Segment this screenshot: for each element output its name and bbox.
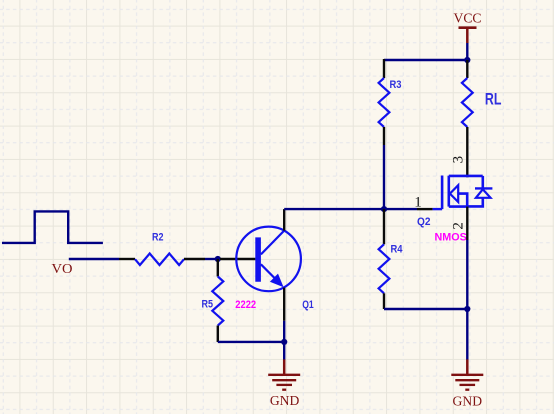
wire R2 to node: [205, 258, 218, 260]
wire R5 to emitter: [218, 341, 284, 343]
ground GND left stem: [283, 359, 286, 374]
resistor RL body: [462, 78, 473, 127]
svg-text:NMOS: NMOS: [435, 232, 467, 244]
resistor RL pin 1: [466, 60, 468, 78]
svg-text:R5: R5: [202, 299, 214, 311]
svg-text:2222: 2222: [235, 299, 256, 311]
svg-text:Q1: Q1: [302, 299, 314, 311]
transistor Q1 base bar: [255, 237, 261, 281]
wire R3 to gate node: [383, 145, 385, 209]
svg-text:VCC: VCC: [454, 12, 482, 27]
ground GND right stem: [466, 359, 469, 374]
svg-text:1: 1: [414, 195, 422, 211]
svg-text:GND: GND: [453, 394, 483, 409]
body diode cathode bar: [475, 187, 492, 189]
transistor Q1 base pin: [220, 258, 255, 260]
transistor Q2 gate pin: [417, 208, 433, 210]
resistor R2 pin 2: [184, 258, 205, 260]
resistor R5 body: [212, 277, 223, 326]
svg-text:R2: R2: [152, 232, 164, 244]
node junction gate/R3/R4: [381, 206, 387, 212]
transistor Q1 collector pin: [283, 209, 285, 231]
transistor Q2 source stub: [449, 205, 467, 208]
body diode branch lower: [467, 198, 483, 207]
body diode branch upper: [481, 176, 484, 189]
wire R4 to source net: [384, 308, 467, 310]
svg-text:GND: GND: [270, 394, 300, 409]
resistor R3 body: [379, 78, 390, 127]
wire emitter to GND: [283, 321, 285, 360]
ground GND right bars: [451, 375, 483, 390]
transistor Q1 circle: [236, 227, 301, 292]
svg-text:2: 2: [451, 222, 467, 230]
body diode triangle: [476, 189, 491, 198]
power port VCC stem: [466, 28, 469, 43]
wire R3 top corner: [384, 59, 467, 61]
pulse waveform VO: [2, 211, 103, 243]
resistor R3 pin 1: [383, 59, 385, 78]
resistor R4 pin 1: [383, 209, 385, 244]
wire VCC to node: [466, 43, 468, 60]
resistor R2 pin 1: [119, 258, 135, 260]
wire VO to R2: [69, 258, 119, 260]
wire source to GND: [466, 240, 468, 360]
resistor R5 pin 2: [217, 326, 219, 343]
node junction source/R4: [464, 306, 470, 312]
transistor Q1 emitter line: [261, 264, 277, 280]
transistor Q1 emitter arrow: [270, 274, 284, 288]
transistor Q2 gate bar: [441, 176, 444, 210]
transistor Q1 emitter pin: [283, 288, 285, 321]
transistor Q2 body tap: [458, 194, 467, 207]
transistor Q2 gate lead: [433, 208, 443, 210]
ground GND left bars: [268, 375, 300, 390]
resistor R5 pin 1: [217, 259, 219, 277]
transistor Q2 channel bar: [447, 176, 450, 207]
node junction VCC/R3/RL: [464, 57, 470, 63]
resistor R3 pin 2: [383, 127, 385, 145]
resistor RL pin 2 / Q2 drain pin: [466, 127, 468, 177]
svg-text:Q2: Q2: [417, 216, 431, 228]
node junction R2/R5/base: [215, 256, 221, 262]
node junction R5/emitter: [281, 339, 287, 345]
svg-text:RL: RL: [485, 90, 502, 109]
resistor R2 body: [135, 254, 184, 266]
power port VCC bar: [459, 26, 477, 29]
svg-text:R4: R4: [391, 244, 404, 256]
svg-text:R3: R3: [390, 79, 402, 91]
resistor R4 body: [379, 244, 390, 293]
transistor Q2 source pin: [466, 207, 468, 240]
svg-text:3: 3: [451, 156, 467, 164]
transistor Q1 collector line: [261, 230, 285, 254]
resistor R4 pin 2: [383, 293, 385, 309]
transistor Q2 drain stub: [449, 175, 483, 178]
transistor Q2 body arrow: [450, 185, 458, 202]
wire collector to gate net: [284, 208, 417, 210]
svg-text:VO: VO: [52, 262, 73, 277]
